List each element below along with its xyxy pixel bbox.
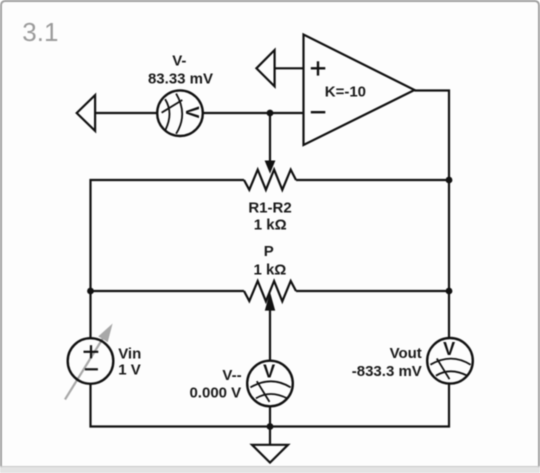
- voltage source Vin variable-arrow head: [98, 324, 112, 343]
- wire: right rail below Vout + bottom rail + Vin bottom: [91, 384, 450, 427]
- junction node at inverting input: [267, 110, 274, 117]
- voltage source Vin variable-arrow shaft: [65, 337, 104, 400]
- wire: P rail left: [91, 290, 245, 292]
- input port arrow (to op-amp + input): [256, 50, 274, 86]
- wire: op-amp noninverting input: [275, 67, 304, 69]
- potentiometer P zigzag: [244, 281, 296, 301]
- wire: V- meter to op-amp inverting input: [203, 112, 304, 114]
- voltmeter V--: [247, 361, 293, 407]
- svg-text:V: V: [182, 106, 202, 118]
- voltage source Vin plus marking: [84, 345, 99, 358]
- wire: V-- meter to bottom rail: [269, 406, 271, 426]
- svg-text:83.33 mV: 83.33 mV: [148, 71, 213, 88]
- bottom separator line: [0, 466, 540, 468]
- P wiper arrowhead: [265, 292, 275, 311]
- ground symbol: [252, 445, 288, 463]
- svg-text:1 kΩ: 1 kΩ: [253, 261, 286, 278]
- svg-text:K=-10: K=-10: [325, 84, 366, 101]
- svg-text:1 kΩ: 1 kΩ: [254, 217, 287, 234]
- svg-text:1 V: 1 V: [118, 361, 141, 378]
- bottom light band: [0, 467, 540, 473]
- svg-text:3.1: 3.1: [22, 17, 58, 47]
- svg-text:V-: V-: [172, 52, 186, 69]
- junction node bottom rail / ground: [267, 423, 274, 430]
- junction node right rail / R1-R2: [446, 177, 453, 184]
- input port arrow (to V- wire): [77, 95, 95, 131]
- svg-text:0.000 V: 0.000 V: [189, 385, 241, 402]
- svg-text:P: P: [264, 243, 274, 260]
- wire: R1-R2 rail left + left rail down to Vin: [91, 180, 245, 338]
- voltmeter Vout: [427, 338, 473, 384]
- R1-R2 wiper arrowhead: [265, 161, 276, 174]
- wire: R1-R2 rail right: [296, 179, 449, 181]
- op-amp minus marking: [311, 111, 326, 113]
- voltmeter V- (rotated): [157, 90, 203, 136]
- op-amp U1 K=-10: [304, 35, 415, 146]
- op-amp plus marking: [311, 61, 326, 75]
- wire: P wiper shaft to V-- meter: [269, 310, 271, 361]
- voltage source Vin minus marking: [85, 368, 98, 370]
- svg-text:Vin: Vin: [118, 345, 141, 362]
- svg-text:V: V: [443, 339, 455, 359]
- wire: ground stub: [269, 427, 271, 445]
- wire: P rail right: [296, 290, 449, 292]
- svg-text:R1-R2: R1-R2: [248, 199, 291, 216]
- junction node left rail / P: [87, 288, 94, 295]
- svg-text:V--: V--: [222, 367, 241, 384]
- resistor R1-R2 zigzag: [244, 170, 296, 190]
- svg-text:-833.3 mV: -833.3 mV: [352, 363, 422, 380]
- svg-text:Vout: Vout: [390, 345, 422, 362]
- svg-text:V: V: [263, 362, 275, 382]
- junction node right rail / P: [446, 288, 453, 295]
- wire: left port to V- meter: [95, 112, 157, 114]
- wire: node to R1-R2 wiper shaft: [269, 113, 271, 162]
- voltage source Vin body: [68, 338, 114, 384]
- wire: op-amp output to right rail: [415, 91, 450, 339]
